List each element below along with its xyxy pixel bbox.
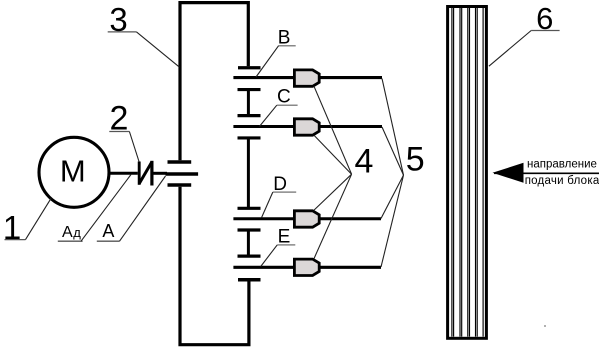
- svg-text:5: 5: [406, 140, 425, 178]
- label Ад underline: [58, 240, 83, 242]
- spark gap E bottom bar: [238, 278, 261, 281]
- label 4 leader to nozzle 4c: [314, 174, 352, 210]
- label А leader: [120, 176, 166, 241]
- label 3 underline: [108, 31, 137, 33]
- label 1 underline: [5, 239, 26, 241]
- svg-text:4: 4: [355, 142, 374, 180]
- label D leader: [262, 192, 273, 217]
- nozzle 4a (pentagon on line B): [294, 70, 319, 86]
- workpiece block 6 inner plate lines: [452, 8, 483, 337]
- svg-text:д: д: [73, 225, 81, 240]
- coupling capacitor I1 vertical: [247, 90, 250, 116]
- label 2 underline: [109, 131, 129, 133]
- coupling capacitor I2 bottom bar: [238, 207, 261, 210]
- coupling (symbol И) left bar: [138, 162, 141, 185]
- coupling capacitor I3 bottom bar: [238, 255, 261, 258]
- electrode A middle plate (thick): [166, 172, 199, 176]
- coupling capacitor I1 top bar: [238, 88, 261, 91]
- label E leader: [261, 245, 278, 267]
- svg-text:А: А: [62, 224, 73, 241]
- label 5 leader to line E end: [381, 175, 404, 267]
- wire: motor shaft to coupling: [110, 172, 138, 175]
- label B leader: [256, 46, 279, 77]
- electrode line D: [233, 217, 381, 220]
- electrode line B: [233, 76, 382, 79]
- electrode line C: [233, 125, 382, 128]
- label 1 leader: [26, 198, 52, 239]
- electrode line E: [233, 266, 381, 269]
- speck: [544, 325, 546, 327]
- label 5 leader to line B end: [382, 79, 404, 176]
- wire: coupling to electrode A: [153, 172, 167, 175]
- capacitor A bottom plate: [168, 183, 192, 186]
- label E underline: [277, 244, 295, 246]
- label 6 underline: [531, 30, 559, 32]
- coupling diagonal: [139, 162, 152, 184]
- label 4 leader to nozzle 4b: [314, 135, 352, 174]
- workpiece block 6 outer frame: [448, 7, 487, 339]
- label 3 leader: [137, 32, 180, 67]
- label B underline: [279, 45, 296, 47]
- label 4 leader to nozzle 4a: [314, 86, 352, 174]
- feed arrow head: [493, 163, 524, 183]
- label А underline: [97, 240, 120, 242]
- frame 3: left vertical lower + bottom wire + bus up to E bar: [180, 187, 249, 345]
- label 5 leader to line D end: [381, 175, 404, 218]
- motor M (electric motor): [39, 137, 109, 207]
- nozzle 4d (pentagon on line E): [294, 259, 319, 275]
- svg-text:направление: направление: [527, 158, 597, 170]
- coupling right bar: [150, 161, 153, 186]
- coupling capacitor I3 top bar: [238, 228, 261, 231]
- svg-text:А: А: [102, 221, 114, 241]
- coupling capacitor I3 vertical: [247, 230, 250, 256]
- nozzle 4c (pentagon on line D): [294, 211, 319, 227]
- label 2 leader: [129, 132, 139, 162]
- label C underline: [277, 104, 298, 106]
- svg-text:М: М: [60, 153, 86, 188]
- coupling capacitor I1 bottom bar: [238, 114, 261, 117]
- label 6 leader: [489, 31, 531, 67]
- feed arrow shaft: [494, 172, 599, 174]
- label Ад leader: [81, 175, 131, 242]
- spark gap B top bar: [238, 66, 261, 69]
- capacitor A top plate: [168, 160, 192, 163]
- frame 3: left vertical upper + top wire + right bus down: [180, 3, 248, 161]
- coupling capacitor I2 top bar: [238, 136, 261, 139]
- nozzle 4b (pentagon on line C): [294, 119, 319, 135]
- label 4 leader to nozzle 4d: [314, 174, 352, 258]
- label D underline: [273, 191, 296, 193]
- coupling capacitor I2 vertical: [247, 138, 250, 208]
- label 5 leader to line C end: [382, 127, 404, 175]
- label C leader: [260, 105, 277, 126]
- svg-text:подачи блока: подачи блока: [525, 175, 599, 187]
